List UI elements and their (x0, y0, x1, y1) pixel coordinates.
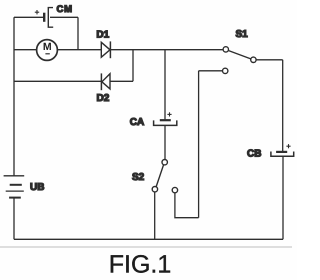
wire D2 row left (14, 80, 101, 82)
wire S2 down to bottom rail (154, 192, 156, 239)
battery UB (4, 176, 25, 198)
wire left rail lower (13, 198, 15, 240)
wire S1 lower horizontal (199, 70, 223, 72)
diode D1 (101, 41, 110, 58)
wire node X vertical (132, 50, 134, 82)
capacitor CA (154, 120, 177, 125)
svg-text:D2: D2 (97, 93, 110, 104)
svg-text:CB: CB (247, 148, 261, 159)
wire D2 to node X (110, 80, 133, 82)
wire CM vertical (77, 17, 79, 49)
wire right riser to S1 lower (198, 71, 200, 218)
svg-text:FIG.1: FIG.1 (109, 250, 172, 278)
wire D1 to S1 (110, 49, 223, 51)
wire CM row right (50, 16, 78, 18)
wire motor row right (57, 49, 101, 51)
wire scan shadow line (0, 246, 292, 248)
wire right rail lower (282, 156, 284, 239)
svg-text:UB: UB (30, 182, 44, 193)
svg-text:S2: S2 (132, 172, 145, 183)
wire CA to S2 (164, 125, 166, 159)
motor M (37, 40, 58, 61)
wire CA vertical top (164, 50, 166, 120)
label CA plus (167, 112, 171, 116)
wire bottom rail (14, 238, 283, 240)
battery CB (271, 152, 294, 157)
svg-text:CA: CA (130, 117, 144, 128)
svg-text:CM: CM (57, 4, 73, 15)
wire CM row left (14, 16, 43, 18)
wire left rail upper (13, 17, 15, 176)
diode D2 (101, 73, 110, 90)
wire S1 to right rail (256, 59, 283, 61)
svg-text:S1: S1 (236, 29, 249, 40)
svg-text:D1: D1 (96, 30, 109, 41)
wire S2 right contact jog (175, 193, 199, 218)
wire right rail upper (282, 60, 284, 152)
switch S1 (223, 47, 257, 74)
wire motor row left (14, 49, 37, 51)
label CB plus (286, 144, 290, 148)
battery CM (44, 8, 53, 28)
svg-text:M: M (43, 41, 52, 53)
label CM plus (35, 10, 39, 14)
switch S2 (152, 160, 177, 193)
